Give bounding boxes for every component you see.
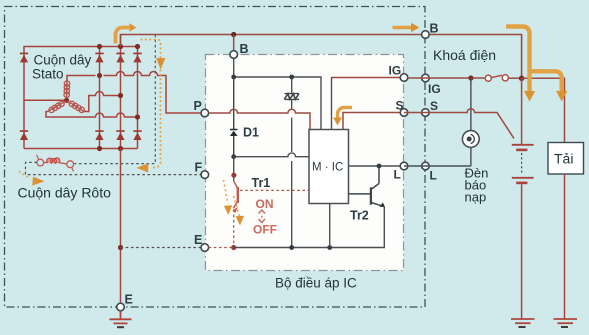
flow arrow: charging current to load (530, 71, 562, 92)
junction dot Tr1/E (231, 245, 236, 250)
wire to load (522, 78, 565, 142)
junction dot F/Tr1 collector (231, 173, 236, 178)
node IG (regulator) (400, 74, 408, 82)
svg-text:nạp: nạp (465, 190, 487, 205)
svg-text:D1: D1 (243, 126, 259, 140)
coil phase 1 (vertical) (66, 82, 68, 99)
coil phase 3 (to lower left) (48, 101, 66, 112)
wire rectifier column 3 (137, 47, 139, 149)
wire L line to lamp (404, 165, 471, 167)
svg-text:L: L (394, 168, 401, 182)
svg-text:ON: ON (256, 197, 274, 211)
svg-text:E: E (125, 293, 133, 307)
ignition switch contacts (485, 75, 491, 81)
flow arrow: into B terminal (393, 26, 413, 30)
charge warning lamp wire top (470, 78, 472, 131)
wire battery negative to ground (521, 184, 523, 318)
diode bottom column 1 (95, 130, 103, 140)
node B (alternator) (422, 31, 430, 39)
wire S sense to battery (hop over lamp wire) (404, 109, 514, 139)
junction dot E rail / E wire (118, 245, 123, 250)
svg-text:Khoá điện: Khoá điện (433, 47, 496, 63)
wire bottom bus (rectifier -) (24, 148, 138, 150)
node E (regulator) (201, 244, 209, 252)
node S (regulator) (400, 109, 408, 117)
svg-text:L: L (430, 169, 437, 183)
diode top column 1 (95, 53, 103, 63)
wire D1 junction to M-IC (hop over resistor line) (234, 153, 309, 157)
svg-text:Tải: Tải (554, 151, 573, 167)
svg-text:Tr1: Tr1 (252, 176, 271, 190)
battery cell 1 (512, 144, 534, 146)
junction dot B/resistor (289, 75, 294, 80)
wire switch to battery junction (509, 77, 522, 79)
rotor feed dashed wire (from B+ line down to right slip ring) (74, 35, 155, 164)
transistor Tr1 (233, 181, 237, 208)
rotor slip ring right (67, 161, 74, 168)
node S (alternator) (422, 109, 430, 117)
diode top column 2 (116, 53, 124, 63)
svg-text:F: F (195, 161, 203, 175)
junction dot resistor/E (289, 245, 294, 250)
wire E dashed node to Tr1 (209, 247, 234, 249)
svg-text:Cuộn dây Rôto: Cuộn dây Rôto (18, 185, 112, 201)
wire phase 1 to P (with hops over columns) (67, 72, 201, 114)
rotor slip ring left (37, 159, 44, 166)
node E (case) (117, 303, 125, 311)
voltage regulator box (Bộ điều áp IC) (206, 55, 404, 271)
diode bottom left column (20, 130, 28, 140)
svg-text:E: E (194, 233, 202, 247)
flow arrowhead: into rotor (left) (137, 163, 149, 172)
brush left (37, 155, 39, 160)
wire rectifier column 1 (99, 47, 101, 149)
wire D1 junction down to Tr1 (233, 157, 235, 181)
wire stator neutral tap (24, 99, 67, 101)
wire B+ from rectifier to battery junction (121, 35, 522, 79)
lamp wire bottom (470, 147, 472, 166)
svg-text:P: P (194, 99, 202, 113)
svg-text:Bộ điều áp IC: Bộ điều áp IC (275, 276, 357, 291)
wire B terminal drop (233, 35, 235, 55)
flow dotted: rotor to F wire (19, 172, 29, 178)
node P (201, 109, 209, 117)
ground symbol E (110, 311, 132, 324)
svg-text:B: B (240, 42, 249, 56)
wire rectifier column 2 (120, 35, 122, 149)
junction dot B+/switch/battery (519, 76, 525, 82)
wire M-IC to L (349, 165, 401, 167)
rotor field coil (44, 158, 67, 164)
ground symbol load (554, 319, 578, 323)
svg-text:S: S (430, 99, 438, 113)
svg-text:S: S (396, 99, 404, 113)
E dashed wire to regulator (121, 247, 202, 249)
flow arrow: into M-IC from S (338, 108, 353, 119)
transistor Tr2 (349, 166, 384, 206)
wire battery positive (521, 78, 523, 144)
flow dotted: through Tr1 (right stream) (234, 196, 240, 216)
wire B internal vertical (233, 58, 235, 77)
wire S internal to M-IC (343, 113, 404, 130)
junction dot B/D1 (231, 75, 236, 80)
rotor to F dashed wire (26, 162, 202, 174)
node F (201, 171, 209, 179)
flow arrow: charging current to battery (506, 27, 530, 93)
node B (regulator) (230, 51, 238, 59)
junction dot lamp/IG (468, 75, 473, 80)
wire top bus (rectifier +) (24, 47, 138, 149)
junction dot D1/F (231, 154, 236, 159)
brush right (72, 167, 74, 171)
wire phase 2 (with hop over column 1) (84, 92, 121, 112)
svg-text:Cuộn dây: Cuộn dây (34, 53, 92, 68)
wire P to M-IC (hops over D1 and resistor lines) (209, 109, 310, 129)
svg-text:M · IC: M · IC (312, 162, 343, 174)
ON/OFF dashed arrow (259, 210, 265, 223)
wire IG line to switch (408, 77, 485, 79)
wire IG internal to M-IC (331, 77, 404, 79)
svg-text:OFF: OFF (253, 223, 277, 237)
load box Tải (548, 143, 584, 175)
junction dot M-IC/E (327, 245, 332, 250)
diode D1 (233, 77, 235, 129)
node IG (alternator) (422, 74, 430, 82)
alternator boundary (dash-dot) (5, 7, 426, 308)
flow arrowhead: toward F (32, 177, 44, 186)
M-IC block (309, 130, 349, 204)
battery middle dotted (521, 153, 523, 175)
flow arrow: stator output (curved) (116, 28, 130, 44)
wire M-IC ground leg (329, 204, 331, 248)
flow dotted: to rotor feed (141, 40, 161, 168)
resistor (hatched) (284, 77, 299, 248)
battery cell 2 (512, 177, 534, 179)
wire B internal horizontal to M-IC (234, 77, 321, 130)
wire load to ground (564, 174, 566, 319)
diode top column 3 (133, 53, 141, 63)
diode bottom column 3 (133, 130, 141, 140)
svg-text:IG: IG (428, 82, 441, 96)
coil phase 2 (to lower right) (68, 101, 85, 112)
wire ground rail down from rectifier (120, 149, 122, 304)
svg-text:B: B (430, 22, 439, 36)
diode top left column (20, 53, 28, 63)
svg-text:IG: IG (389, 64, 402, 78)
svg-text:Tr2: Tr2 (350, 209, 369, 223)
node L (regulator) (400, 162, 408, 170)
flow arrowhead: down rotor feed (156, 58, 165, 70)
node L (alternator) (422, 162, 430, 170)
flow dotted: through Tr1 (left stream) (224, 180, 229, 204)
wire E internal rail (234, 207, 385, 248)
wire phase 3 (hops over columns 1,2) (46, 112, 138, 118)
svg-text:Stato: Stato (32, 67, 64, 82)
junction dots rectifier (64, 44, 140, 151)
charge warning lamp (462, 131, 479, 148)
junction dot B+ / regulator B (231, 32, 236, 37)
wire Tr1 emitter dashed to E (233, 210, 235, 248)
junction dot L/Tr2 (377, 164, 382, 169)
diode bottom column 2 (116, 130, 124, 140)
stator winding coils (3-phase star) (48, 81, 85, 113)
switch blade (492, 75, 502, 77)
wire Tr1 base dashed to M-IC (240, 189, 309, 191)
ground symbol battery (511, 319, 535, 323)
